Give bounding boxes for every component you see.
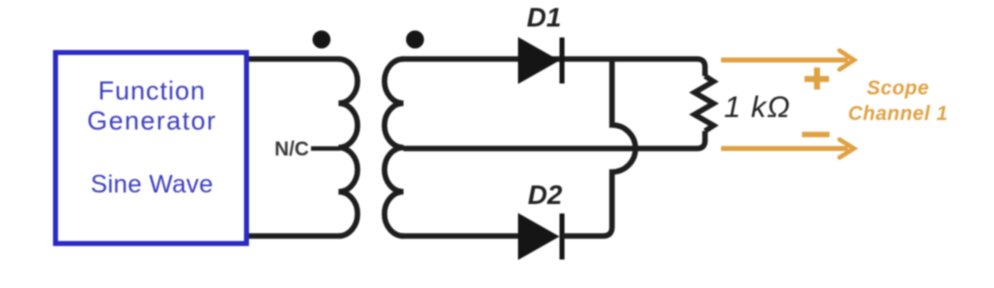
function generator box <box>56 53 247 244</box>
svg-text:1 kΩ: 1 kΩ <box>724 91 791 124</box>
svg-text:Channel 1: Channel 1 <box>848 103 948 125</box>
wire: primary top lead <box>249 56 339 62</box>
diode D2 <box>518 213 562 260</box>
svg-text:Generator: Generator <box>87 106 217 136</box>
transformer T1 secondary winding <box>384 59 403 236</box>
minus sign <box>802 132 830 138</box>
svg-text:N/C: N/C <box>275 139 309 161</box>
wire: primary bottom lead <box>249 233 339 239</box>
svg-text:D2: D2 <box>528 180 563 210</box>
wire: bottom rail from secondary to D2 <box>402 233 520 239</box>
output arrow: scope channel 1 positive <box>721 51 854 70</box>
resistor R1 <box>695 76 714 131</box>
svg-text:D1: D1 <box>527 3 562 33</box>
svg-text:Sine Wave: Sine Wave <box>91 171 214 199</box>
svg-text:Function: Function <box>98 75 206 105</box>
transformer T1 primary winding <box>339 59 358 236</box>
wire: D2 cathode riser with hop over center tap <box>562 62 636 237</box>
label Scope Channel 1 <box>848 78 948 126</box>
label: Function Generator / Sine Wave <box>87 75 217 198</box>
wire: top rail from secondary through D1 to resistor <box>402 59 705 76</box>
polarity dot (secondary) <box>406 31 424 49</box>
output arrow: scope channel 1 negative <box>721 140 854 158</box>
wire: N/C stub on primary center <box>311 146 340 151</box>
wire: center tap rail to resistor bottom <box>404 131 706 149</box>
svg-text:Scope: Scope <box>867 78 930 100</box>
diode D1 <box>518 37 562 84</box>
plus sign <box>805 68 830 90</box>
polarity dot (primary) <box>313 31 331 49</box>
